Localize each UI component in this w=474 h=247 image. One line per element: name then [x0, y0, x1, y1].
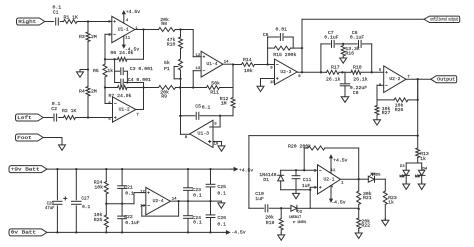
svg-text:5k: 5k	[164, 60, 170, 66]
svg-text:U2-1: U2-1	[323, 176, 334, 182]
svg-text:10k: 10k	[94, 185, 103, 191]
svg-text:R5: R5	[93, 68, 99, 74]
svg-text:+4.5v: +4.5v	[126, 9, 141, 15]
svg-text:8: 8	[185, 136, 188, 140]
svg-text:0.1: 0.1	[217, 191, 226, 197]
svg-text:U2-2: U2-2	[389, 76, 400, 82]
svg-text:R27: R27	[382, 110, 391, 116]
svg-text:C1: C1	[53, 9, 59, 15]
svg-text:0.1: 0.1	[82, 204, 90, 210]
svg-text:U2-4: U2-4	[153, 198, 164, 204]
svg-text:0.1: 0.1	[202, 105, 211, 111]
svg-text:D5: D5	[376, 174, 381, 178]
svg-text:Output: Output	[437, 79, 456, 83]
svg-text:R18: R18	[353, 65, 362, 71]
svg-text:0.1uF: 0.1uF	[350, 34, 365, 40]
svg-text:or 1N4001: or 1N4001	[293, 220, 307, 225]
svg-text:+4.5v: +4.5v	[333, 157, 348, 163]
svg-text:C27: C27	[81, 195, 89, 201]
svg-text:1k: 1k	[388, 200, 394, 206]
svg-text:C6: C6	[263, 32, 269, 38]
svg-text:U1-4: U1-4	[206, 61, 217, 67]
svg-text:0.1: 0.1	[125, 191, 134, 197]
svg-text:C11: C11	[303, 177, 312, 183]
svg-text:R16: R16	[345, 51, 354, 57]
svg-text:1M: 1M	[221, 101, 227, 107]
svg-text:R11: R11	[210, 89, 219, 95]
svg-text:U2-3: U2-3	[280, 69, 291, 75]
svg-text:R21: R21	[363, 195, 372, 201]
svg-text:C3 0.001: C3 0.001	[130, 66, 153, 72]
svg-text:D4: D4	[422, 167, 427, 171]
svg-text:1uF: 1uF	[255, 196, 264, 202]
svg-text:-4.5v: -4.5v	[331, 200, 346, 206]
svg-text:7: 7	[136, 114, 139, 118]
svg-text:0.1uF: 0.1uF	[125, 220, 140, 226]
svg-text:1N5817: 1N5817	[289, 216, 302, 220]
svg-text:C5: C5	[195, 104, 201, 110]
svg-text:1k: 1k	[420, 156, 426, 162]
svg-text:C21: C21	[124, 185, 133, 191]
svg-text:0.1: 0.1	[52, 101, 61, 107]
svg-text:C23: C23	[192, 187, 201, 193]
svg-text:0.1: 0.1	[217, 222, 226, 228]
svg-text:R19: R19	[266, 220, 275, 226]
svg-text:R10: R10	[167, 41, 176, 47]
svg-text:12: 12	[140, 191, 145, 195]
svg-text:0.1: 0.1	[193, 219, 202, 225]
svg-text:11: 11	[125, 37, 130, 41]
svg-text:R17: R17	[331, 65, 340, 71]
svg-text:26.1k: 26.1k	[353, 77, 368, 83]
svg-text:U1-3: U1-3	[198, 131, 210, 137]
svg-text:9: 9	[270, 67, 273, 71]
svg-text:Foot: Foot	[17, 137, 32, 141]
svg-text:0.1uF: 0.1uF	[324, 34, 339, 40]
svg-text:R22: R22	[361, 223, 370, 229]
svg-text:2M: 2M	[91, 34, 97, 40]
svg-text:C9: C9	[353, 90, 359, 96]
svg-text:2M: 2M	[91, 89, 97, 95]
svg-text:9: 9	[214, 122, 217, 126]
svg-text:R24: R24	[94, 179, 103, 185]
svg-text:R2 1K: R2 1K	[62, 108, 77, 114]
svg-text:R7 24.9k: R7 24.9k	[109, 93, 132, 99]
svg-text:R3: R3	[79, 34, 85, 40]
svg-text:R26: R26	[395, 107, 404, 113]
svg-text:6: 6	[108, 102, 111, 106]
svg-text:U1-1: U1-1	[118, 26, 129, 32]
svg-text:1uF: 1uF	[302, 183, 311, 189]
svg-text:0.1: 0.1	[193, 192, 202, 198]
svg-text:C4 0.001: C4 0.001	[128, 77, 151, 83]
svg-text:unfiltered output: unfiltered output	[430, 18, 458, 23]
svg-text:1k: 1k	[107, 68, 113, 74]
svg-text:4: 4	[126, 19, 129, 23]
svg-text:1: 1	[341, 182, 344, 186]
svg-text:R15 200k: R15 200k	[273, 52, 296, 58]
svg-text:26.1k: 26.1k	[326, 77, 341, 83]
svg-text:C2: C2	[51, 106, 57, 112]
svg-text:20k: 20k	[265, 215, 274, 221]
svg-text:Right: Right	[18, 20, 37, 25]
svg-text:12: 12	[196, 54, 201, 58]
svg-text:10k: 10k	[244, 68, 253, 74]
svg-text:R20 200k: R20 200k	[288, 144, 311, 150]
svg-text:47uF: 47uF	[45, 206, 55, 211]
svg-text:D1: D1	[263, 177, 269, 183]
svg-text:8: 8	[298, 75, 301, 79]
svg-text:R1 1K: R1 1K	[64, 15, 79, 21]
svg-text:R25: R25	[94, 217, 103, 223]
svg-text:R6 24.9k: R6 24.9k	[111, 50, 134, 56]
svg-text:R8: R8	[161, 21, 167, 27]
svg-text:Left: Left	[17, 116, 32, 121]
svg-text:+9v Batt: +9v Batt	[11, 168, 40, 172]
svg-text:R4: R4	[79, 89, 85, 95]
svg-text:U1-2: U1-2	[119, 106, 130, 112]
svg-text:R14: R14	[243, 57, 252, 63]
svg-text:5: 5	[108, 118, 111, 122]
svg-text:0v Batt: 0v Batt	[11, 232, 37, 236]
svg-text:C26: C26	[217, 215, 226, 221]
svg-text:D2: D2	[297, 211, 302, 215]
svg-text:C22: C22	[124, 214, 133, 220]
svg-text:-4.5v: -4.5v	[231, 230, 246, 236]
svg-text:C25: C25	[217, 184, 226, 190]
svg-text:P1: P1	[164, 66, 170, 72]
svg-text:R9: R9	[161, 94, 167, 100]
svg-text:10: 10	[270, 81, 275, 85]
svg-text:6: 6	[379, 84, 382, 88]
svg-text:0.01: 0.01	[276, 27, 288, 33]
svg-text:D3: D3	[400, 165, 405, 169]
svg-text:+4.5v: +4.5v	[239, 168, 254, 174]
svg-text:50k: 50k	[211, 81, 220, 87]
